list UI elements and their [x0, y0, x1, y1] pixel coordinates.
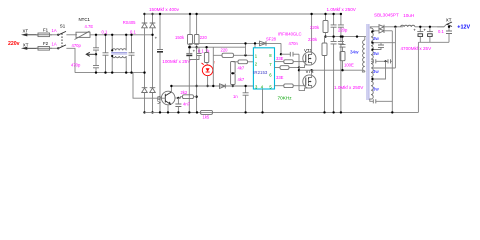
transformer T1 primary 34w — [350, 35, 365, 72]
wire F1 to S1 — [50, 34, 58, 36]
capacitor 0.1 X-cap input side — [102, 30, 109, 74]
svg-text:1A: 1A — [52, 41, 57, 46]
common-mode choke L winding — [111, 34, 127, 52]
svg-text:10uH: 10uH — [403, 13, 414, 18]
wire output 0V row — [418, 41, 449, 43]
capacitor divider chain B — [338, 13, 344, 114]
resistor RT to pin2 — [233, 60, 254, 64]
svg-text:3w: 3w — [373, 51, 380, 56]
svg-text:0.1: 0.1 — [438, 29, 444, 34]
wire mains tap to transistor base — [133, 73, 161, 99]
connector XT pin N arrow — [21, 42, 38, 50]
svg-text:470p: 470p — [72, 43, 82, 48]
capacitor 4700MkF A — [413, 26, 423, 43]
capacitor 150MkF x 400v bulk — [149, 7, 180, 114]
svg-text:100E: 100E — [344, 62, 354, 67]
switch S1 (DPST) — [58, 23, 78, 72]
capacitor 0.1 X-cap bridge side — [129, 30, 137, 74]
svg-text:1.0Mkf x 250V: 1.0Mkf x 250V — [334, 85, 364, 90]
connector XT output +12V arrow — [437, 18, 470, 31]
svg-text:F2: F2 — [43, 41, 49, 46]
fuse F2 1A — [36, 41, 57, 50]
svg-text:3w: 3w — [373, 69, 380, 74]
svg-text:470n: 470n — [289, 41, 299, 46]
resistor 1k5 in ground return — [196, 110, 213, 119]
resistor 220 vcc dropper — [194, 13, 207, 113]
transistor VT3 protection — [156, 85, 179, 114]
common-mode choke N winding — [111, 55, 127, 74]
wire output row after diode — [384, 26, 403, 28]
resistor 220k upper — [310, 13, 328, 38]
wire secondary top to diode row — [370, 27, 379, 28]
svg-text:SF28: SF28 — [266, 36, 277, 41]
capacitor 220p snubber — [338, 28, 348, 52]
svg-text:4n7: 4n7 — [183, 102, 191, 107]
resistor 100E snubber — [340, 52, 354, 72]
svg-text:XT: XT — [446, 18, 452, 23]
wire half-bridge midpoint row — [299, 70, 365, 72]
svg-text:1A: 1A — [52, 28, 57, 33]
resistor 2k2 — [178, 90, 196, 99]
wire tap row at w3/w4 — [371, 61, 386, 80]
transistor VT2 mosfet — [299, 69, 316, 91]
wire output 0V drop to bottom rail — [417, 42, 419, 112]
svg-text:220k: 220k — [308, 37, 318, 42]
svg-text:4k7: 4k7 — [238, 65, 245, 70]
svg-text:470p: 470p — [71, 63, 81, 68]
resistor 220 to vcc pin1 — [213, 42, 253, 86]
svg-text:XT: XT — [23, 29, 29, 34]
svg-text:XT: XT — [23, 42, 29, 47]
svg-text:220v: 220v — [8, 41, 20, 47]
bridge rectifier RS405 — [123, 13, 156, 114]
transistor VT1 mosfet — [299, 13, 316, 68]
svg-text:220p: 220p — [338, 28, 348, 33]
svg-text:2k2: 2k2 — [181, 90, 188, 95]
svg-text:3w: 3w — [373, 36, 380, 41]
svg-text:150Mkf x 400v: 150Mkf x 400v — [149, 7, 180, 12]
diode to CT pin3 — [220, 84, 226, 89]
wire node row — [189, 46, 245, 48]
svg-text:S1: S1 — [60, 23, 66, 28]
svg-text:100Mkf x 25V: 100Mkf x 25V — [162, 59, 191, 64]
svg-text:1.0Mkf x 250V: 1.0Mkf x 250V — [327, 7, 357, 12]
resistor VS row — [275, 66, 301, 70]
svg-text:1k5: 1k5 — [203, 115, 210, 120]
wire N row to bridge — [75, 72, 145, 74]
capacitor 0.1 output — [438, 26, 452, 43]
resistor 33E lower LO gate — [275, 75, 306, 88]
diode SF28 — [254, 36, 282, 55]
svg-text:VT3: VT3 — [156, 95, 161, 104]
wire top +310V rail — [145, 13, 341, 15]
svg-text:220k: 220k — [310, 25, 320, 30]
capacitor 470p upper — [72, 35, 100, 55]
capacitor 100MkF x 25V — [162, 43, 195, 113]
svg-text:70KHz: 70KHz — [278, 95, 293, 100]
wire bottom common rail — [145, 111, 419, 113]
connector XT pin L arrow — [21, 29, 38, 37]
wire output +12V rail — [415, 26, 444, 28]
svg-text:220: 220 — [221, 48, 229, 53]
svg-text:IRFI840GLC: IRFI840GLC — [278, 32, 302, 37]
resistor 33E upper HO gate — [275, 56, 306, 64]
wire tap row to bus with hanging capacitor — [371, 27, 395, 68]
svg-text:33E: 33E — [276, 56, 284, 61]
capacitor 1n — [233, 85, 249, 114]
transformer T1 secondary winding column — [371, 28, 373, 99]
svg-text:F1: F1 — [43, 28, 49, 33]
diode SBL3045PT upper — [379, 25, 384, 29]
svg-text:4k7: 4k7 — [238, 77, 245, 82]
inductor 10uH — [401, 13, 415, 27]
ground chassis arrow at 470p midpoint — [86, 34, 97, 57]
svg-text:SBL3045PT: SBL3045PT — [374, 13, 399, 18]
svg-text:+12V: +12V — [457, 24, 470, 30]
svg-text:0.1: 0.1 — [102, 30, 108, 35]
diode SBL3045PT lower — [379, 29, 384, 33]
resistor 4k7 lower — [231, 72, 245, 87]
svg-text:+: + — [155, 36, 158, 41]
svg-text:IR2153: IR2153 — [253, 70, 268, 75]
svg-text:+: + — [193, 49, 196, 54]
wire pin4 to ground — [262, 89, 264, 112]
IC U1 IR2153 — [253, 48, 274, 90]
wire bottom return row with capacitor — [370, 99, 394, 114]
wire secondary tap row2 — [371, 30, 379, 33]
svg-text:150k: 150k — [175, 35, 185, 40]
svg-text:NTC1: NTC1 — [79, 17, 91, 22]
capacitor 4n7 — [175, 98, 190, 114]
resistor 1k — [204, 46, 208, 63]
svg-text:4.7E: 4.7E — [85, 24, 94, 29]
wire F2 to S1 — [50, 47, 58, 49]
svg-text:4700Mkf x 25V: 4700Mkf x 25V — [401, 46, 433, 51]
common-mode choke core — [111, 53, 127, 54]
svg-text:3w: 3w — [373, 87, 380, 92]
capacitor 470p lower — [71, 54, 99, 74]
svg-text:RS405: RS405 — [123, 20, 136, 25]
capacitor 0.1 vcc — [189, 47, 201, 59]
fuse F1 1A — [36, 28, 57, 37]
capacitor 4700MkF B — [423, 26, 433, 43]
wire pin3 CT row — [171, 85, 253, 87]
capacitor 470n bootstrap — [281, 41, 300, 91]
thermistor NTC1 4.7E — [75, 17, 94, 40]
capacitor divider chain A — [331, 13, 337, 114]
svg-text:34w: 34w — [350, 49, 359, 54]
wire divider node row — [326, 36, 367, 38]
svg-text:1n: 1n — [233, 94, 238, 99]
svg-text:220: 220 — [200, 35, 208, 40]
zener diode VD (red highlighted) — [202, 61, 215, 88]
wire NTC to filter — [90, 34, 153, 36]
resistor 220k lower — [308, 37, 327, 114]
wire mid row with two capacitors — [371, 59, 392, 63]
wire VCC row — [189, 42, 281, 44]
wire diode2 cathode to bus A — [384, 30, 392, 32]
svg-text:+: + — [423, 28, 426, 33]
svg-text:!: ! — [214, 61, 215, 65]
svg-text:+: + — [413, 28, 416, 33]
resistor 4k7 upper — [231, 62, 245, 74]
transformer T1 core — [367, 24, 369, 100]
svg-text:33E: 33E — [276, 75, 284, 80]
resistor 150k — [175, 13, 193, 49]
